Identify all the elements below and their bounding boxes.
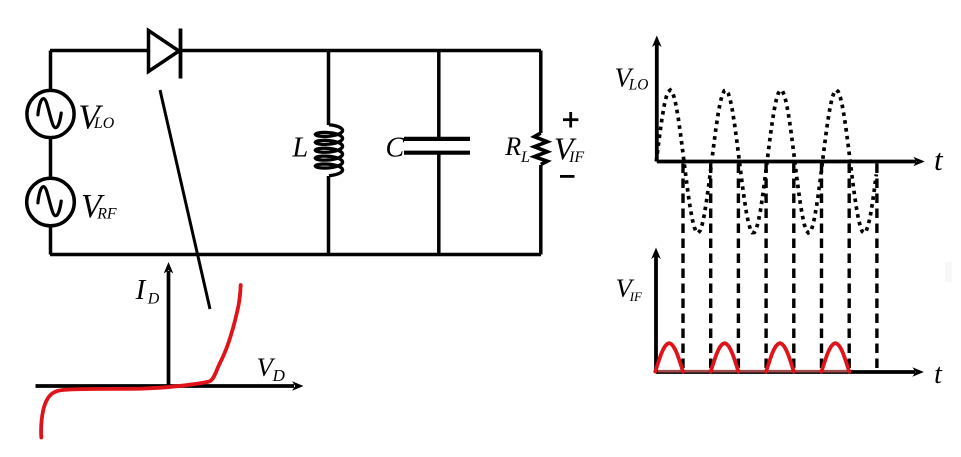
svg-text:LO: LO — [628, 77, 649, 94]
svg-text:IF: IF — [568, 149, 584, 166]
svg-text:R: R — [504, 132, 521, 161]
svg-text:L: L — [520, 149, 530, 166]
svg-text:t: t — [934, 359, 943, 390]
svg-text:LO: LO — [93, 115, 115, 132]
svg-text:D: D — [147, 291, 160, 308]
svg-text:t: t — [934, 142, 944, 177]
svg-text:RF: RF — [96, 205, 117, 222]
svg-text:C: C — [386, 133, 405, 164]
svg-text:L: L — [291, 132, 308, 163]
svg-text:D: D — [272, 366, 286, 385]
svg-text:I: I — [135, 274, 147, 306]
svg-text:IF: IF — [629, 289, 643, 304]
